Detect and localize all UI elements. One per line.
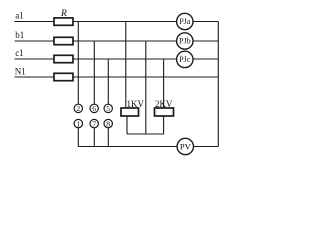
fuse box N1: [54, 73, 73, 80]
wire 2KV bottom drop: [163, 116, 165, 134]
wire column b1 to bottom U bus: [145, 41, 147, 134]
wire 1KV bottom drop: [126, 116, 128, 134]
wire column c1 to terminal 5: [107, 59, 109, 104]
terminal 2: [74, 104, 82, 112]
svg-text:7: 7: [92, 119, 96, 128]
terminal 7: [90, 119, 98, 127]
meter PJb: [177, 33, 193, 49]
svg-text:b1: b1: [15, 30, 24, 40]
terminal 8: [104, 119, 112, 127]
svg-text:R: R: [60, 9, 67, 19]
contact box 1KV: [121, 108, 139, 116]
fuse box b1: [54, 37, 73, 44]
wire N1 row: [15, 76, 219, 78]
svg-text:N1: N1: [15, 66, 26, 76]
svg-text:8: 8: [106, 119, 110, 128]
wire U bus under KV boxes: [127, 133, 164, 135]
svg-text:2KV: 2KV: [155, 99, 173, 109]
wire column a1 to 1KV: [125, 22, 127, 109]
voltmeter PV: [177, 138, 193, 154]
svg-text:PV: PV: [180, 141, 192, 151]
svg-text:2: 2: [76, 104, 80, 113]
svg-text:PJa: PJa: [179, 17, 191, 26]
svg-text:a1: a1: [15, 11, 24, 21]
wire terminal 1 drop: [77, 128, 79, 147]
svg-text:1: 1: [76, 119, 80, 128]
terminal 6: [90, 104, 98, 112]
fuse box c1: [54, 55, 73, 62]
contact box 2KV: [155, 108, 174, 116]
resistor R on a1: [54, 18, 73, 25]
wire b1 row: [15, 40, 219, 42]
wire c1 row: [15, 58, 219, 60]
wire column b1 to terminal 6: [93, 41, 95, 105]
wire right bus: [217, 22, 219, 147]
wire column a1 to terminal 2: [77, 22, 79, 105]
meter PJa: [177, 13, 193, 29]
svg-text:5: 5: [106, 104, 110, 113]
wire PV to right bus: [194, 146, 219, 148]
svg-text:6: 6: [92, 104, 96, 113]
wire column c1 to 2KV: [163, 59, 165, 108]
svg-text:PJc: PJc: [179, 55, 191, 64]
wire terminal 8 drop: [107, 128, 109, 147]
svg-text:1KV: 1KV: [127, 99, 145, 109]
wire bottom bus: [78, 146, 177, 148]
svg-text:c1: c1: [15, 48, 24, 58]
terminal 5: [104, 104, 112, 112]
terminal 1: [74, 119, 82, 127]
svg-text:PJb: PJb: [179, 37, 191, 46]
meter PJc: [177, 51, 193, 67]
wire terminal 7 drop: [93, 128, 95, 147]
wire a1 row: [15, 21, 219, 23]
